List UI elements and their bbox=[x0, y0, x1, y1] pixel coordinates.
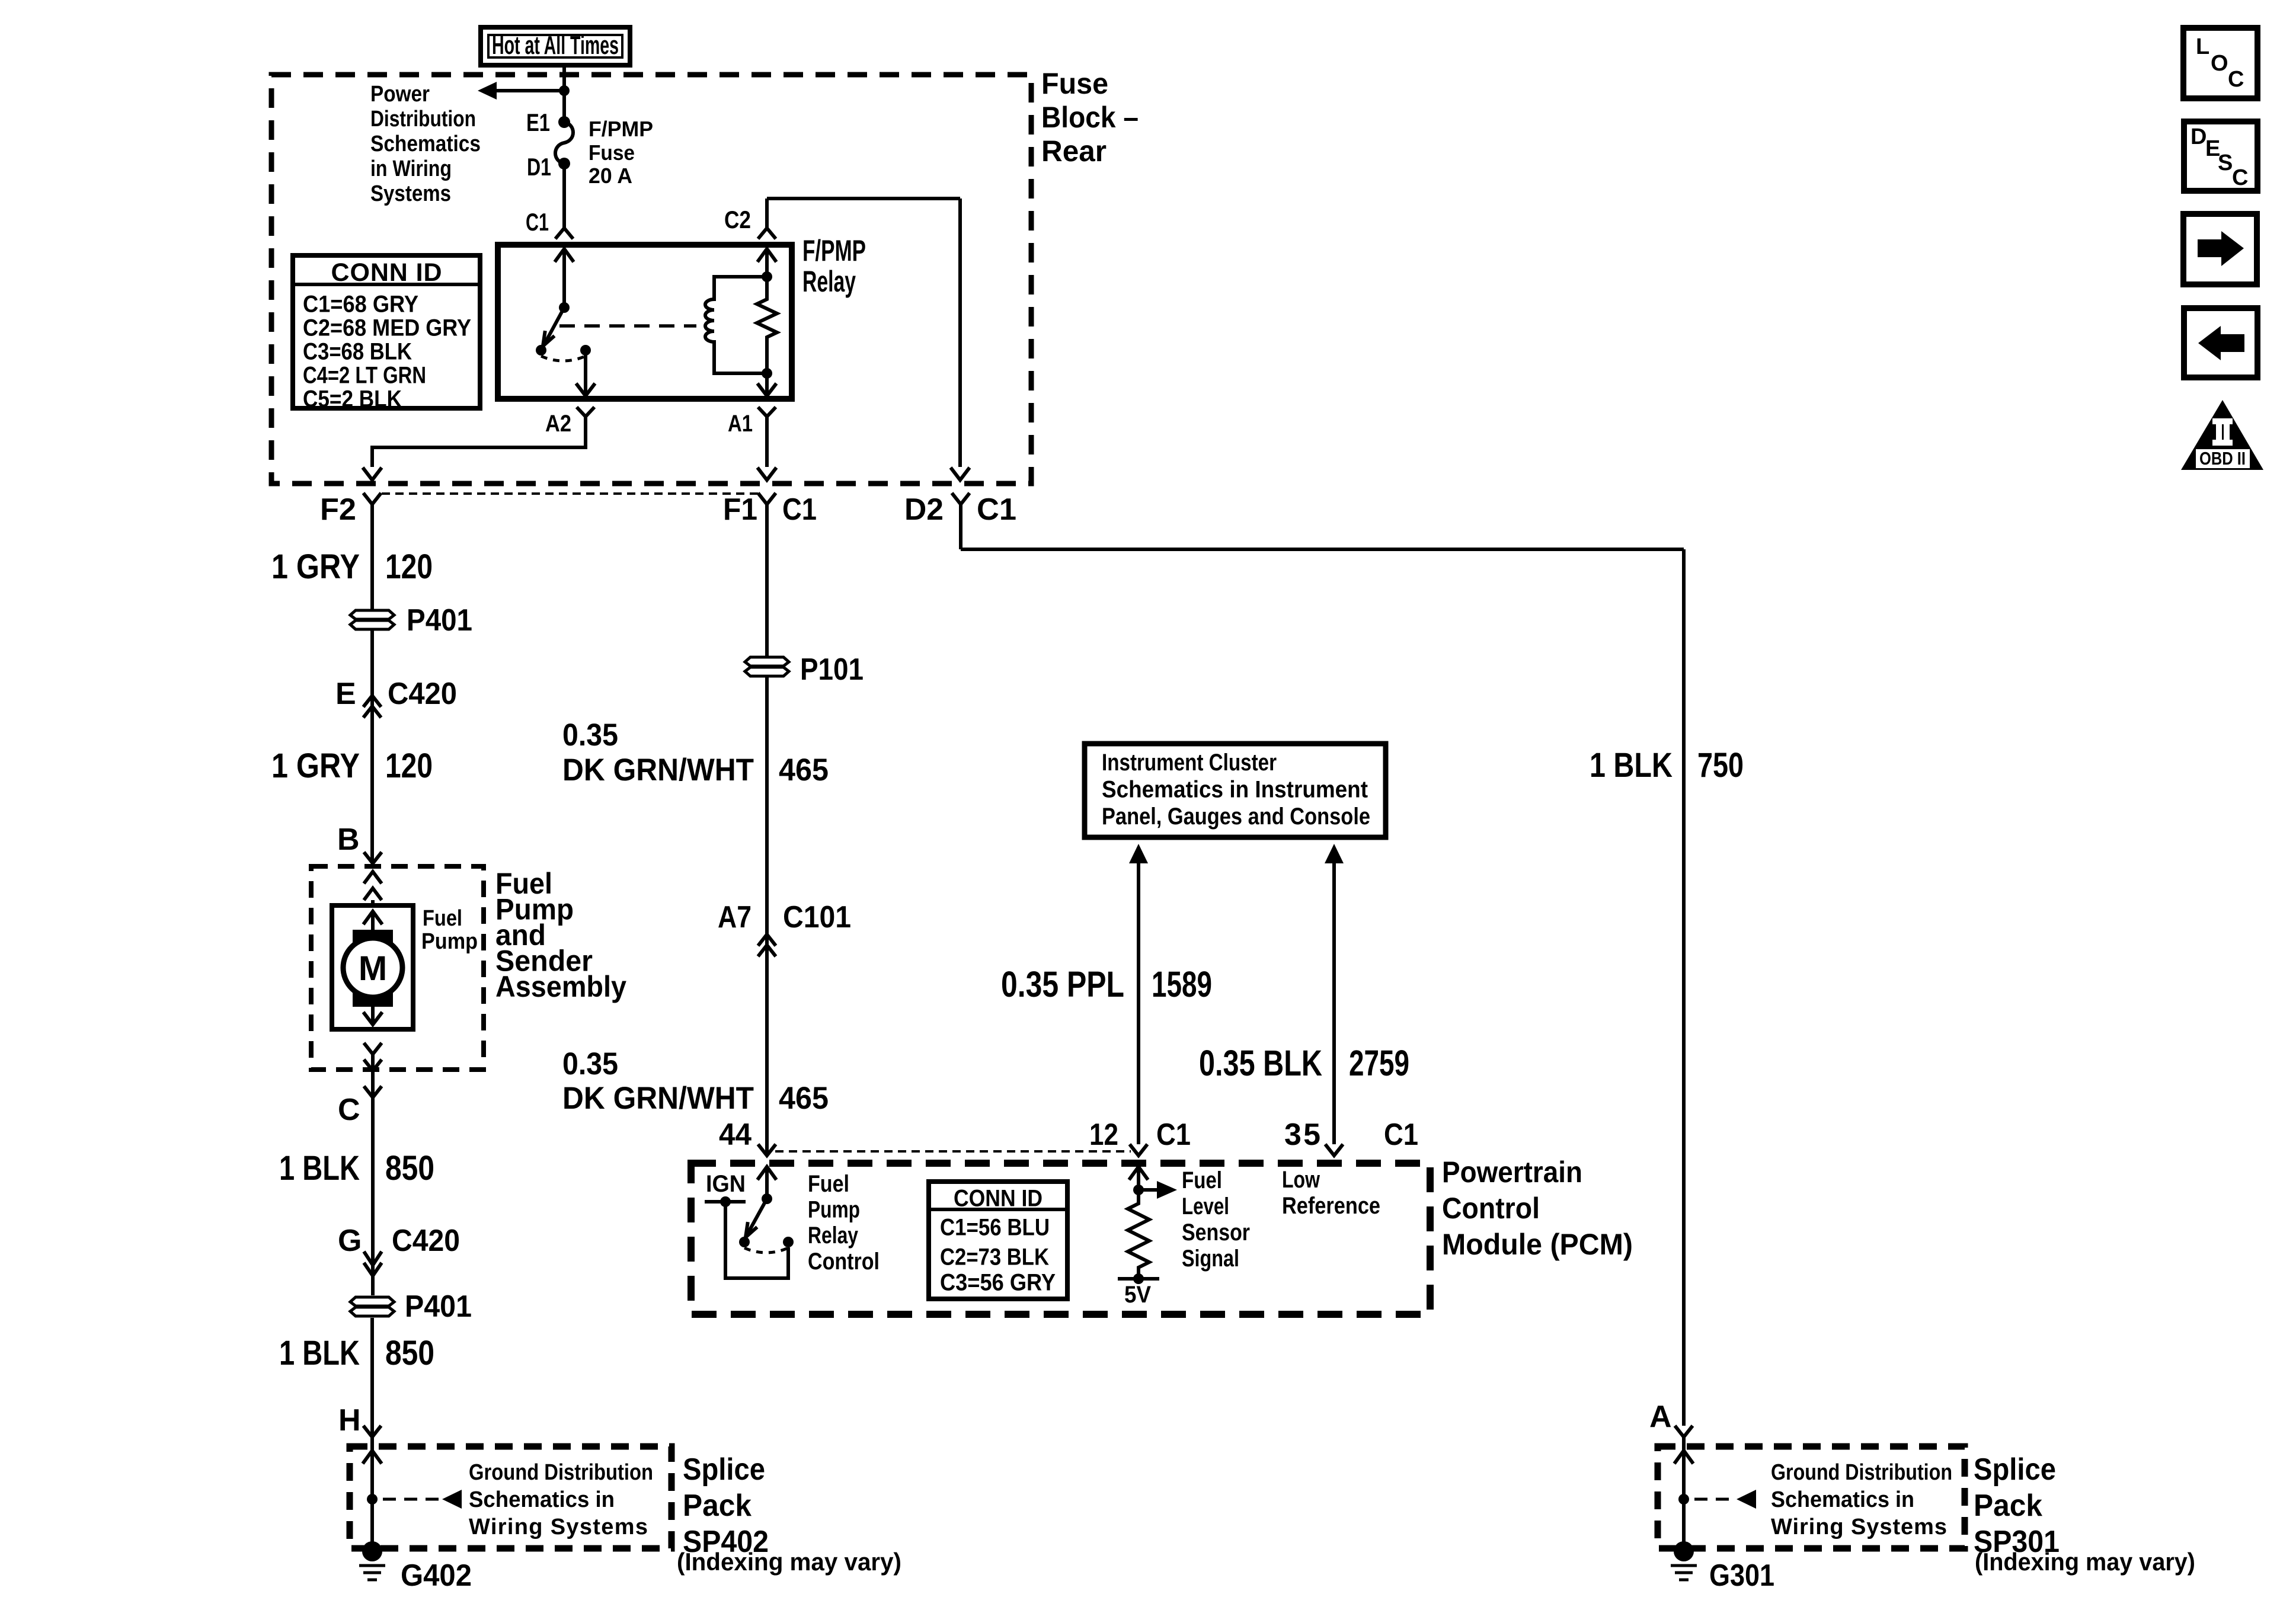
svg-text:Schematics in: Schematics in bbox=[1771, 1487, 1914, 1512]
svg-text:OBD II: OBD II bbox=[2199, 448, 2246, 469]
svg-text:Control: Control bbox=[1442, 1192, 1540, 1225]
svg-text:C1: C1 bbox=[1156, 1118, 1191, 1152]
svg-text:H: H bbox=[338, 1403, 361, 1438]
svg-text:Systems: Systems bbox=[370, 181, 451, 206]
svg-text:Assembly: Assembly bbox=[495, 970, 626, 1003]
svg-text:Power: Power bbox=[370, 82, 430, 107]
svg-text:850: 850 bbox=[385, 1334, 434, 1372]
svg-text:F/PMP: F/PMP bbox=[802, 234, 866, 267]
svg-text:Powertrain: Powertrain bbox=[1442, 1156, 1582, 1189]
svg-text:E: E bbox=[335, 677, 356, 711]
svg-text:C1: C1 bbox=[1384, 1118, 1418, 1152]
svg-text:C1: C1 bbox=[526, 208, 549, 236]
svg-text:C2=68 MED GRY: C2=68 MED GRY bbox=[303, 315, 471, 341]
svg-text:Schematics: Schematics bbox=[370, 132, 481, 156]
svg-text:Ground Distribution: Ground Distribution bbox=[469, 1460, 653, 1485]
svg-text:C1=56 BLU: C1=56 BLU bbox=[940, 1215, 1050, 1241]
svg-text:C420: C420 bbox=[392, 1224, 460, 1258]
svg-text:12: 12 bbox=[1089, 1118, 1118, 1152]
svg-text:120: 120 bbox=[385, 548, 433, 586]
svg-text:(Indexing may vary): (Indexing may vary) bbox=[677, 1548, 901, 1576]
svg-text:A7: A7 bbox=[718, 900, 752, 934]
svg-text:G301: G301 bbox=[1709, 1558, 1774, 1593]
svg-text:P101: P101 bbox=[800, 652, 864, 687]
svg-text:1 BLK: 1 BLK bbox=[1590, 746, 1673, 785]
svg-text:Level: Level bbox=[1182, 1193, 1229, 1219]
svg-text:465: 465 bbox=[779, 753, 829, 788]
svg-text:C1: C1 bbox=[782, 492, 817, 527]
svg-text:Distribution: Distribution bbox=[370, 107, 476, 132]
svg-text:(Indexing may vary): (Indexing may vary) bbox=[1975, 1548, 2195, 1576]
svg-text:Control: Control bbox=[808, 1249, 880, 1275]
svg-text:Instrument Cluster: Instrument Cluster bbox=[1102, 750, 1277, 776]
svg-text:C: C bbox=[338, 1093, 360, 1127]
svg-text:Rear: Rear bbox=[1041, 135, 1107, 168]
svg-text:Hot at All Times: Hot at All Times bbox=[492, 31, 619, 60]
svg-text:P401: P401 bbox=[405, 1289, 472, 1324]
svg-text:850: 850 bbox=[385, 1149, 434, 1188]
svg-text:C: C bbox=[2232, 165, 2248, 190]
svg-text:C2: C2 bbox=[724, 206, 751, 233]
svg-text:Wiring Systems: Wiring Systems bbox=[469, 1515, 648, 1539]
svg-text:C1: C1 bbox=[977, 492, 1016, 527]
svg-text:1 GRY: 1 GRY bbox=[271, 747, 360, 785]
svg-text:Splice: Splice bbox=[1974, 1452, 2056, 1487]
svg-text:0.35: 0.35 bbox=[562, 1046, 618, 1081]
svg-text:1 GRY: 1 GRY bbox=[271, 548, 360, 586]
svg-text:CONN ID: CONN ID bbox=[954, 1186, 1043, 1212]
svg-text:Block –: Block – bbox=[1041, 101, 1139, 134]
svg-text:A2: A2 bbox=[545, 411, 571, 437]
svg-text:O: O bbox=[2211, 51, 2228, 76]
svg-text:G402: G402 bbox=[401, 1558, 472, 1593]
svg-text:1 BLK: 1 BLK bbox=[279, 1149, 360, 1188]
svg-text:G: G bbox=[338, 1224, 362, 1258]
svg-text:C2=73 BLK: C2=73 BLK bbox=[940, 1244, 1049, 1270]
svg-text:P401: P401 bbox=[407, 603, 472, 638]
svg-text:C420: C420 bbox=[388, 677, 457, 711]
svg-text:D1: D1 bbox=[527, 153, 551, 181]
svg-text:Pack: Pack bbox=[1974, 1489, 2042, 1523]
svg-text:in Wiring: in Wiring bbox=[370, 156, 452, 181]
svg-text:C3=68 BLK: C3=68 BLK bbox=[303, 339, 412, 365]
svg-text:CONN ID: CONN ID bbox=[331, 258, 442, 287]
svg-text:2759: 2759 bbox=[1349, 1043, 1409, 1083]
svg-text:Splice: Splice bbox=[683, 1452, 765, 1487]
svg-text:C5=2 BLK: C5=2 BLK bbox=[303, 386, 402, 412]
svg-text:0.35 BLK: 0.35 BLK bbox=[1199, 1043, 1322, 1083]
svg-text:Pump: Pump bbox=[808, 1197, 860, 1223]
svg-text:120: 120 bbox=[385, 747, 433, 785]
svg-text:Schematics in: Schematics in bbox=[469, 1487, 615, 1512]
svg-text:465: 465 bbox=[779, 1081, 829, 1116]
svg-text:Fuel: Fuel bbox=[423, 906, 462, 931]
svg-text:44: 44 bbox=[719, 1118, 752, 1152]
svg-text:Relay: Relay bbox=[802, 265, 856, 298]
svg-text:S: S bbox=[2218, 151, 2233, 175]
svg-text:A1: A1 bbox=[728, 411, 753, 437]
svg-text:Fuse: Fuse bbox=[589, 140, 635, 165]
svg-text:IGN: IGN bbox=[706, 1171, 746, 1197]
svg-text:F1: F1 bbox=[723, 492, 757, 527]
svg-text:Ground Distribution: Ground Distribution bbox=[1771, 1460, 1952, 1485]
svg-text:E1: E1 bbox=[526, 108, 550, 136]
svg-text:Reference: Reference bbox=[1282, 1193, 1380, 1219]
svg-text:B: B bbox=[337, 822, 360, 857]
svg-text:Pump: Pump bbox=[421, 929, 478, 954]
svg-text:Relay: Relay bbox=[808, 1222, 859, 1249]
svg-text:Fuse: Fuse bbox=[1041, 67, 1108, 100]
svg-text:L: L bbox=[2196, 34, 2209, 59]
svg-text:Module (PCM): Module (PCM) bbox=[1442, 1228, 1633, 1261]
svg-text:Schematics in Instrument: Schematics in Instrument bbox=[1102, 777, 1368, 803]
svg-text:5V: 5V bbox=[1124, 1282, 1151, 1308]
svg-text:F2: F2 bbox=[320, 492, 356, 527]
svg-text:0.35 PPL: 0.35 PPL bbox=[1001, 964, 1124, 1004]
svg-text:C: C bbox=[2228, 67, 2244, 92]
svg-text:Pack: Pack bbox=[683, 1489, 752, 1523]
svg-text:D2: D2 bbox=[904, 492, 944, 527]
svg-text:1589: 1589 bbox=[1152, 964, 1212, 1004]
svg-text:20 A: 20 A bbox=[589, 164, 632, 188]
svg-text:Sensor: Sensor bbox=[1182, 1219, 1250, 1246]
svg-text:DK GRN/WHT: DK GRN/WHT bbox=[562, 753, 754, 788]
svg-text:A: A bbox=[1649, 1400, 1672, 1434]
svg-text:F/PMP: F/PMP bbox=[589, 117, 653, 141]
svg-text:C4=2 LT GRN: C4=2 LT GRN bbox=[303, 363, 426, 389]
svg-text:C101: C101 bbox=[783, 900, 851, 934]
svg-text:Low: Low bbox=[1282, 1167, 1320, 1193]
svg-text:1 BLK: 1 BLK bbox=[279, 1334, 360, 1372]
svg-text:750: 750 bbox=[1697, 746, 1744, 785]
svg-text:C3=56 GRY: C3=56 GRY bbox=[940, 1270, 1056, 1296]
svg-text:Wiring Systems: Wiring Systems bbox=[1771, 1515, 1947, 1539]
svg-text:M: M bbox=[359, 949, 387, 988]
svg-text:Fuel: Fuel bbox=[1182, 1167, 1222, 1193]
svg-text:Signal: Signal bbox=[1182, 1246, 1239, 1272]
svg-text:Panel, Gauges and Console: Panel, Gauges and Console bbox=[1102, 804, 1370, 830]
svg-text:35: 35 bbox=[1284, 1118, 1320, 1152]
svg-text:D: D bbox=[2191, 124, 2207, 149]
svg-text:Fuel: Fuel bbox=[808, 1171, 849, 1197]
svg-text:C1=68 GRY: C1=68 GRY bbox=[303, 292, 418, 318]
svg-text:DK GRN/WHT: DK GRN/WHT bbox=[562, 1081, 754, 1116]
svg-text:0.35: 0.35 bbox=[562, 718, 618, 753]
